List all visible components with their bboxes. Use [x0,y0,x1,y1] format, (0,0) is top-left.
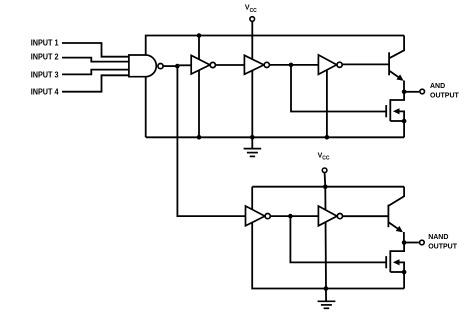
junction M1 source node [402,119,407,124]
junction ground 2 [324,286,329,291]
node AND output junction [402,90,407,95]
transistor M1 gate bar [385,105,387,117]
wire U6 to Q2 base [343,215,389,217]
ground 1 [244,137,262,156]
transistor M2 drain [390,243,404,252]
svg-text:INPUT 4: INPUT 4 [31,88,59,97]
Vcc2 terminal [322,168,327,173]
transistor Q2 collector [388,187,404,206]
wire bottom rail [146,136,404,138]
wire U2 power line [198,36,200,138]
wire bottom section left edge and bottom rail [252,187,404,289]
inverter U5 [246,206,265,226]
wire to AND output terminal [404,91,419,93]
wire U3 to U4 [269,64,318,66]
node A junction [175,64,180,69]
svg-text:INPUT 2: INPUT 2 [31,52,59,61]
wire NAND output to node A [164,65,179,67]
svg-text:OUTPUT: OUTPUT [430,93,460,100]
svg-text:VCC: VCC [318,152,330,161]
transistor M2 substrate arrow [393,259,404,272]
wire U4 to Q1 base [342,63,389,65]
wire Vcc1 power line through U3 [251,22,253,138]
transistor M1 channel bar [389,99,391,121]
wire input 4 [62,75,130,91]
wire bottom section top rail [252,186,404,188]
wire input 1 [62,43,130,57]
inverter U3 [244,55,264,74]
transistor Q1 base bar [388,52,390,75]
svg-text:VCC: VCC [245,5,257,14]
node C junction [288,214,293,219]
transistor Q2 emitter [388,222,404,242]
ground 2 [318,289,336,309]
transistor M2 source [390,271,404,273]
node NAND output junction [402,240,407,245]
wire node C to M2 gate [290,216,386,262]
svg-text:NAND: NAND [428,234,448,241]
inverter U2 [191,55,210,74]
junction U4 tap [325,135,330,140]
transistor Q1 collector [389,36,404,59]
inverter U4 [318,55,336,75]
transistor M1 drain [390,92,404,100]
wire U5 to U6 [270,215,318,217]
transistor M1 source [390,120,404,122]
wire input 3 [62,70,130,75]
junction bottom rail U2 power [197,135,202,140]
AND output terminal [420,89,425,94]
inverter U6 [318,206,337,226]
wire U2 to U3 [215,64,244,66]
node B junction [289,63,294,68]
svg-text:INPUT 1: INPUT 1 [31,39,59,48]
wire node A to U2 [178,64,191,66]
svg-text:OUTPUT: OUTPUT [428,244,458,251]
wire top rail [146,36,404,138]
junction Vcc2 top rail [323,184,328,189]
wire node A to bottom section [177,66,245,216]
Vcc1 terminal [250,17,255,22]
transistor M2 gate bar [385,256,387,268]
junction M2 source node [402,270,407,275]
svg-text:INPUT 3: INPUT 3 [31,70,59,79]
wire U4 ground tap [326,66,328,137]
wire Vcc2 power line through U6 [325,173,326,289]
transistor Q2 base bar [387,205,389,228]
wire to NAND output terminal [404,242,419,244]
NAND output terminal [420,240,425,245]
transistor Q1 emitter [389,71,404,92]
wire input 2 [62,58,130,62]
transistor M1 substrate arrow [393,108,404,121]
svg-text:AND: AND [430,83,445,90]
NAND gate U1 [129,55,156,77]
wire node B to M1 gate [291,65,386,112]
wire M2 source to bottom rail [403,272,405,289]
junction top rail U2 power [197,33,202,38]
transistor M2 channel bar [389,250,391,272]
junction ground 1 [250,135,255,140]
wire M1 source to bottom rail [403,121,405,137]
